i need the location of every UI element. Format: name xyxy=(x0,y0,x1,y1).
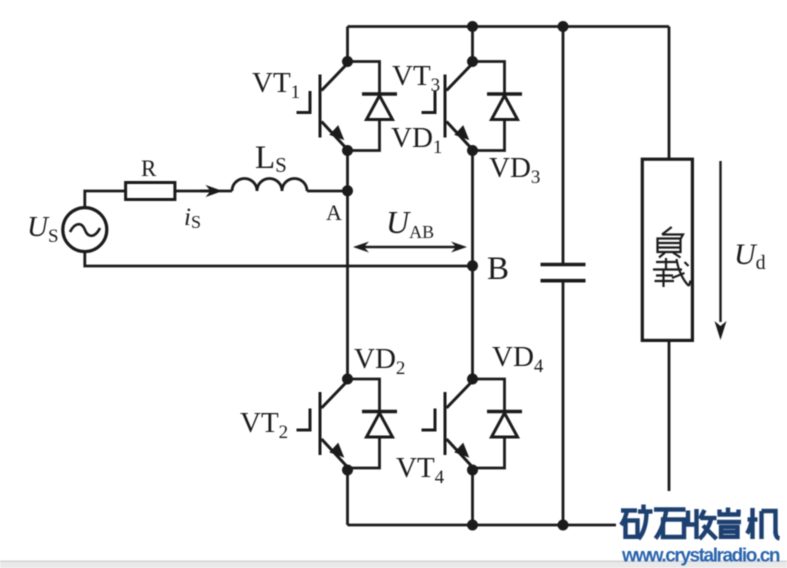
diode VD4 xyxy=(473,379,523,468)
inductor LS xyxy=(232,179,307,192)
junction dot VT4 emitter xyxy=(467,465,478,476)
junction dot VT2 emitter xyxy=(342,465,353,476)
transistor VT1 xyxy=(297,64,348,149)
load resistor box xyxy=(642,27,692,526)
transistor VT4 xyxy=(422,381,473,466)
transistor VT3 xyxy=(422,64,473,149)
junction dot VT3 emitter xyxy=(467,145,478,156)
watermark logo char 音 xyxy=(717,508,741,537)
node B junction dot xyxy=(467,260,478,271)
watermark logo char 矿 xyxy=(621,505,653,540)
svg-text:B: B xyxy=(487,251,509,287)
diode VD2 xyxy=(348,379,398,468)
node A junction dot xyxy=(342,185,353,196)
voltage arrow Ud xyxy=(715,161,727,340)
diode VD1 xyxy=(348,62,398,151)
svg-text:R: R xyxy=(141,156,157,181)
junction dot VT1 emitter xyxy=(342,145,353,156)
left leg wire middle segment xyxy=(346,151,349,380)
watermark logo char 机 xyxy=(747,508,780,539)
left leg wire bottom segment xyxy=(346,470,349,525)
diode VD3 xyxy=(473,62,523,151)
left leg wire top segment xyxy=(346,27,349,62)
right leg wire top segment xyxy=(471,27,474,62)
junction dot top rail capacitor xyxy=(558,21,569,32)
watermark logo char 收 xyxy=(688,509,717,539)
junction dot VT2 collector xyxy=(342,374,353,385)
wire source top to resistor xyxy=(85,191,126,208)
right leg wire middle segment xyxy=(471,151,474,380)
load label 载 (glyph strokes) xyxy=(653,258,691,287)
svg-text:A: A xyxy=(326,200,342,225)
junction dot bottom rail capacitor xyxy=(558,520,569,531)
resistor R xyxy=(126,183,175,200)
transistor VT2 xyxy=(297,381,348,466)
load label 负 (glyph strokes) xyxy=(658,227,684,258)
wire inductor to node A xyxy=(307,190,348,193)
junction dot VT3 collector xyxy=(467,56,478,67)
watermark logo char 石 xyxy=(654,510,686,539)
bottom rail wire xyxy=(348,524,670,527)
white patch under watermark xyxy=(616,491,787,561)
junction dot VT4 collector xyxy=(467,374,478,385)
wire source bottom to node B xyxy=(85,252,473,266)
capacitor C xyxy=(541,27,586,526)
junction dot bottom rail right leg xyxy=(467,520,478,531)
junction dot top rail right leg xyxy=(467,21,478,32)
junction dot VT1 collector xyxy=(342,56,353,67)
right leg wire bottom segment xyxy=(471,470,474,525)
AC source US xyxy=(63,208,107,252)
wire resistor to inductor with current arrow xyxy=(175,186,232,196)
voltage arrow UAB xyxy=(353,242,467,253)
footer gray bar xyxy=(0,561,787,568)
top rail wire xyxy=(348,25,670,28)
svg-text:www.crystalradio.cn: www.crystalradio.cn xyxy=(621,546,781,567)
